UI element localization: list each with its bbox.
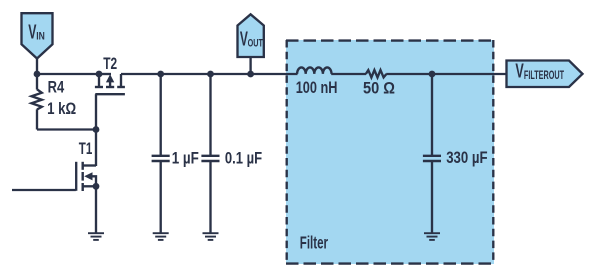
capacitor C3 330uF [423,74,441,233]
wire T1 gate lead [12,189,76,191]
svg-text:1 kΩ: 1 kΩ [47,101,76,118]
ground (C2) [203,233,219,240]
svg-text:FILTEROUT: FILTEROUT [524,69,564,82]
ground (T1 source) [88,233,104,240]
svg-text:V: V [515,59,524,82]
capacitor C1 1uF [152,74,170,233]
svg-text:330 µF: 330 µF [446,150,487,168]
junction node VOUT [247,71,254,78]
wire main rail left (VIN node to T2 source) [37,73,99,75]
svg-text:Filter: Filter [300,234,328,253]
transistor T2 [95,74,125,130]
resistor R4 [32,74,42,130]
transistor T1 [76,130,96,192]
svg-text:1 µF: 1 µF [172,150,199,167]
wire 50 Ohm resistor to VFILTEROUT [386,73,507,75]
inductor 100 nH [297,67,331,74]
wire T2 source-body stub [99,73,111,75]
junction node C3 top [429,71,436,78]
svg-text:T2: T2 [103,55,117,74]
wire T1 source to ground [95,186,97,233]
svg-text:V: V [240,28,248,50]
resistor 50 Ohm [366,70,387,77]
svg-text:100 nH: 100 nH [296,80,338,98]
junction node gate/drain [93,126,100,133]
wire R4 bottom to gate node [37,128,96,130]
net flag VOUT [238,14,264,74]
svg-text:0.1 µF: 0.1 µF [225,150,262,168]
junction node T2 source [96,71,103,78]
svg-text:50 Ω: 50 Ω [363,80,395,98]
capacitor C2 0.1uF [201,74,219,233]
junction node C1 top [157,71,164,78]
junction node C2 top [207,71,214,78]
net flag VFILTEROUT [507,59,583,87]
svg-text:R4: R4 [48,79,65,97]
svg-text:T1: T1 [79,140,92,159]
ground (C1) [153,233,169,240]
wire inductor to 50 Ohm resistor [331,73,366,75]
junction node VIN/R4 [34,71,41,78]
net flag VIN [22,13,53,74]
junction node T1 source [93,183,100,190]
svg-text:OUT: OUT [248,37,264,49]
filter box [286,40,494,264]
ground (C3) [424,233,440,240]
wire main rail right (T2 drain to inductor) [121,73,298,75]
svg-text:IN: IN [36,31,45,43]
